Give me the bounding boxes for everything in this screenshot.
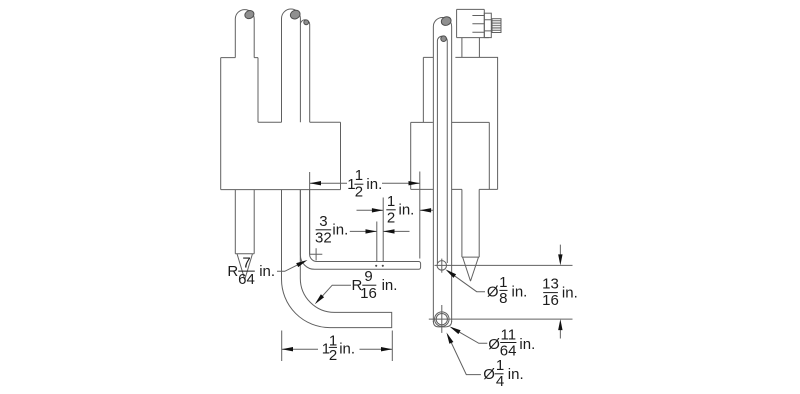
svg-text:7: 7 bbox=[242, 254, 250, 271]
svg-text:in.: in. bbox=[259, 263, 275, 280]
svg-text:Ø: Ø bbox=[487, 283, 499, 300]
svg-text:13: 13 bbox=[542, 276, 559, 293]
svg-text:32: 32 bbox=[315, 229, 332, 246]
svg-text:16: 16 bbox=[542, 292, 559, 309]
svg-text:in.: in. bbox=[508, 366, 524, 383]
svg-text:2: 2 bbox=[329, 347, 337, 364]
svg-text:in.: in. bbox=[562, 285, 578, 302]
svg-text:1: 1 bbox=[355, 167, 363, 184]
svg-text:R: R bbox=[227, 263, 238, 280]
svg-text:in.: in. bbox=[332, 222, 348, 239]
svg-text:1: 1 bbox=[496, 357, 504, 374]
svg-text:3: 3 bbox=[319, 213, 327, 230]
svg-text:in.: in. bbox=[512, 283, 528, 300]
svg-text:2: 2 bbox=[355, 184, 363, 201]
svg-text:8: 8 bbox=[499, 290, 507, 307]
svg-text:1: 1 bbox=[387, 193, 395, 210]
svg-text:9: 9 bbox=[364, 268, 372, 285]
svg-text:2: 2 bbox=[387, 209, 395, 226]
svg-text:in.: in. bbox=[519, 336, 535, 353]
svg-text:1: 1 bbox=[499, 274, 507, 291]
svg-text:in.: in. bbox=[339, 341, 355, 358]
svg-text:64: 64 bbox=[238, 271, 255, 288]
svg-text:Ø: Ø bbox=[483, 366, 495, 383]
svg-text:in.: in. bbox=[382, 277, 398, 294]
svg-text:in.: in. bbox=[366, 176, 382, 193]
svg-text:4: 4 bbox=[496, 373, 504, 390]
svg-text:11: 11 bbox=[501, 326, 517, 343]
svg-text:in.: in. bbox=[399, 202, 415, 219]
svg-text:Ø: Ø bbox=[488, 336, 500, 353]
svg-text:16: 16 bbox=[360, 285, 377, 302]
